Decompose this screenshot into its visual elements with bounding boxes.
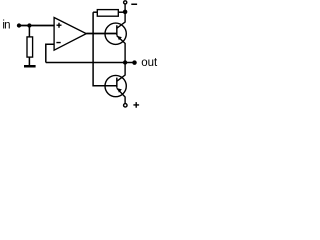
wire feedback bottom run to out xyxy=(46,62,135,64)
transistor Q1 emitter lead xyxy=(117,36,125,63)
transistor Q2 emitter arrow xyxy=(117,88,122,92)
wire op-amp output xyxy=(86,33,116,35)
transistor Q1 circle xyxy=(105,23,126,44)
op-amp U1 xyxy=(54,18,86,51)
svg-text:out: out xyxy=(141,57,158,69)
transistor Q2 emitter lead xyxy=(117,88,125,103)
resistor R1 xyxy=(27,37,33,57)
transistor Q2 base bar xyxy=(116,78,117,88)
wire inverting input lead xyxy=(46,44,54,62)
node out junction dot xyxy=(123,60,127,64)
transistor Q1 base bar xyxy=(116,25,117,35)
terminal V+ open circle xyxy=(124,104,128,108)
transistor Q2 circle xyxy=(105,75,126,96)
label V- minus xyxy=(131,4,137,6)
label V+ plus xyxy=(133,102,139,108)
svg-text:in: in xyxy=(2,20,10,32)
wire R1 to ground xyxy=(28,57,30,65)
terminal V- open circle xyxy=(124,1,127,4)
transistor Q2 collector lead xyxy=(117,63,125,82)
resistor R2 xyxy=(97,10,118,17)
transistor Q1 collector lead xyxy=(117,12,125,28)
wire junction down to resistor R1 xyxy=(28,26,30,38)
node input junction dot xyxy=(27,23,31,27)
node out terminal dot xyxy=(132,60,137,65)
op-amp plus marker xyxy=(57,23,62,28)
wire output node vertical and base bus to Q2 xyxy=(93,12,117,86)
ground xyxy=(24,65,36,68)
wire R2 right lead xyxy=(118,11,125,13)
node in terminal dot xyxy=(17,23,21,27)
op-amp minus marker xyxy=(56,42,60,44)
node V- junction dot xyxy=(123,10,128,15)
wire input horizontal xyxy=(19,25,55,27)
transistor Q1 emitter arrow xyxy=(117,36,122,40)
wire resistor R2 left lead xyxy=(93,11,97,13)
wire junction to V- terminal xyxy=(124,4,126,12)
